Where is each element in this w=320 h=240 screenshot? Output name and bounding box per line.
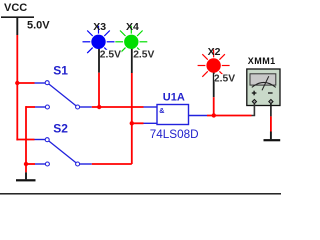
svg-text:X4: X4 [126,21,139,33]
svg-text:&: & [159,106,164,115]
svg-text:VCC: VCC [4,2,27,14]
svg-text:2.5V: 2.5V [133,49,154,60]
svg-text:5.0V: 5.0V [27,20,50,32]
svg-text:X3: X3 [93,21,106,33]
svg-text:U1A: U1A [163,92,185,104]
svg-text:2.5V: 2.5V [100,49,121,60]
svg-text:74LS08D: 74LS08D [150,128,199,141]
svg-text:X2: X2 [208,46,221,58]
svg-text:XMM1: XMM1 [248,56,276,66]
svg-text:S2: S2 [53,122,68,136]
svg-text:S1: S1 [53,64,68,78]
svg-text:2.5V: 2.5V [214,74,235,85]
